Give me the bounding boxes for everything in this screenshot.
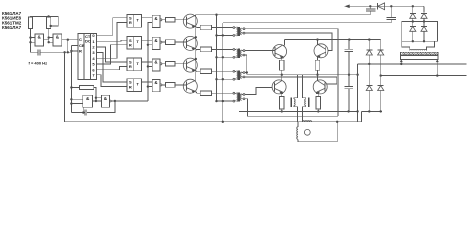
node clamp rail1 top — [368, 38, 370, 40]
node midpoint riser — [356, 74, 358, 76]
wire R2 bottom bus — [48, 29, 50, 43]
node bridge c2 frame top — [423, 20, 425, 22]
node leg A mid — [281, 74, 283, 76]
wire DD6.1 bottom stub — [82, 107, 84, 112]
wire bus B to C3 — [223, 22, 391, 24]
node clamp rail2 bottom — [380, 110, 382, 112]
node blanking row4 — [147, 85, 149, 87]
node bridge c1 frame bottom — [412, 40, 414, 42]
node rail x357 bottom join — [356, 110, 358, 112]
wire counter out 6 to DD4.1 R — [97, 67, 127, 70]
wire supply top — [345, 5, 425, 7]
wire R4 to VT2 base — [175, 41, 187, 43]
wire R11 bottom — [281, 70, 283, 74]
counter DD2 K561IE8 — [78, 33, 97, 80]
wire bottom long — [65, 121, 362, 123]
node VT6 collector — [316, 38, 318, 40]
svg-text:C: C — [79, 37, 82, 42]
wire FF1 out to gate — [141, 17, 152, 19]
wire VT5 collector — [282, 40, 284, 46]
svg-text:R: R — [129, 64, 132, 69]
resistor R3 — [166, 18, 175, 23]
node T3 sec top join — [246, 71, 248, 73]
wire FF3 out to gate — [141, 61, 152, 63]
wire VT5 emitter — [282, 57, 283, 61]
gate DD5.2 output bubble — [160, 41, 162, 43]
wire gate4 to R6 — [162, 84, 166, 86]
wire counter out 4 to DD3.1 R — [97, 22, 127, 58]
transistor VT6 — [314, 44, 328, 58]
wire supply bus A — [216, 15, 218, 102]
wire R15 right — [94, 88, 96, 102]
wire R1-R2 top rail — [31, 16, 59, 26]
capacitor C2 — [366, 6, 376, 14]
node DD6.1 stub — [82, 111, 84, 113]
wire counter out 2 to DD4.1 S — [97, 47, 127, 62]
resistor R4 — [166, 40, 175, 45]
resistor R12 — [315, 60, 320, 70]
gate DD5.1 NAND — [152, 15, 160, 27]
node leg B mid — [316, 74, 318, 76]
wire C1 left — [31, 51, 38, 53]
resistor R13 — [280, 96, 285, 109]
resistor R7 — [200, 25, 211, 30]
wire T1 sec bottom to VT6 base — [245, 33, 332, 50]
resistor R9 — [200, 69, 211, 74]
node R15 to DD6.1 out — [95, 100, 97, 102]
node T1 ret busB — [222, 34, 224, 36]
wire T3 primary return — [217, 78, 234, 80]
wire midpoint riser — [357, 64, 359, 75]
node C6 feedback — [114, 100, 116, 102]
wire rail x357 down — [357, 75, 359, 122]
node DD6.2 input a tap — [95, 97, 97, 99]
svg-text:DC: DC — [85, 38, 91, 43]
wire output lower — [381, 75, 467, 77]
wire R13 bottom — [281, 109, 283, 112]
capacitor C5 — [345, 75, 354, 112]
wire VT6 collector — [317, 40, 320, 45]
wire DD6.2 input a — [96, 97, 102, 99]
transistor VT4 — [183, 79, 197, 93]
wire VT4 emitter — [195, 91, 200, 93]
wire VT1 collector rail — [196, 14, 370, 16]
resistor R8 — [200, 47, 211, 52]
lamp housing outline — [297, 121, 337, 142]
gate DD5.3 output bubble — [160, 63, 162, 65]
wire R1 bottom to C1 — [30, 29, 32, 53]
resistor R5 — [166, 62, 175, 67]
transistor VT8 — [313, 80, 327, 94]
wire slow branch down — [64, 52, 66, 122]
svg-text:R: R — [129, 20, 132, 25]
wire DD1.2 input b — [49, 41, 53, 43]
wire R15 left — [71, 87, 79, 89]
wire R5 to VT3 base — [175, 63, 187, 65]
wire FF2 out to gate — [141, 39, 152, 41]
transistor VT1 — [183, 14, 197, 28]
capacitor C6 — [85, 110, 87, 116]
resistor R14 — [316, 96, 321, 109]
gate DD5.3 NAND — [152, 59, 160, 71]
wire VT1 emitter — [195, 26, 200, 28]
resistor R10 — [200, 91, 211, 96]
wire counter out 1 to DD3.2 S — [97, 40, 127, 41]
svg-text:CE: CE — [79, 43, 85, 48]
wire T5 feed right top — [303, 75, 306, 99]
wire T6 sec left lead — [400, 60, 403, 64]
gate DD5.4 output bubble — [160, 84, 162, 86]
wire VT7 collector — [281, 75, 283, 81]
wire T4 sec bottom — [245, 99, 338, 116]
node cap2 bottom — [347, 110, 349, 112]
diode VD6 — [410, 6, 416, 21]
diode VD8 — [410, 22, 416, 42]
wire counter R input — [71, 50, 78, 52]
wire bridge col2 feed — [423, 6, 425, 12]
wire blanking bus vertical — [148, 22, 152, 101]
wire CE/R common drop — [70, 46, 72, 113]
wire blanking to gate4 — [148, 86, 152, 88]
node T3 ret busA — [215, 78, 217, 80]
transistor VT5 — [273, 45, 287, 59]
node bus A top — [215, 14, 217, 16]
wire T3 sec top — [245, 72, 247, 74]
wire R9 to T3 primary — [212, 70, 233, 72]
gate DD6.1 NAND — [83, 95, 93, 107]
node C2 top — [369, 5, 371, 7]
transformer T3 — [233, 70, 245, 80]
wire R8 to T2 primary — [212, 48, 233, 50]
bridge frame — [402, 22, 438, 42]
node cap rail top — [348, 38, 350, 40]
node bridge col1 top — [412, 5, 414, 7]
node gate DD1.2 input b — [48, 41, 50, 43]
transformer T6 core — [401, 52, 439, 54]
wire output upper — [358, 63, 467, 65]
wire counter out 3 to DD4.2 S — [97, 53, 127, 82]
node T4 ret busB — [222, 100, 224, 102]
node gate DD1.1 input b — [29, 41, 31, 43]
node T6 sec left — [400, 63, 402, 65]
wire counter out 0 to DD3.1 S — [97, 18, 127, 36]
node lamp top right — [336, 121, 338, 123]
wire C6 right — [87, 101, 115, 113]
wire T4 sec top to VT7 base — [245, 88, 272, 95]
wire bottom-right drop — [361, 111, 363, 121]
wire DD6.1 input b — [71, 103, 82, 105]
resistor R1 — [28, 17, 32, 29]
wire VT6 emitter — [316, 56, 318, 60]
wire counter out 5 to DD3.2 R — [97, 45, 127, 64]
wire R2 top stub — [48, 15, 50, 18]
wire T2 sec bottom — [245, 55, 247, 75]
wire T5 feed right bottom — [303, 106, 306, 122]
diode VD2 — [366, 64, 372, 112]
wire T6 prim left lead — [402, 41, 410, 50]
node R13 bottom — [281, 110, 283, 112]
wire VT2 emitter — [195, 48, 200, 50]
node VT3 collector — [195, 58, 197, 60]
label f=400Hz — [29, 61, 48, 66]
wire R12 bottom — [317, 70, 319, 74]
svg-text:R: R — [79, 49, 82, 54]
flip-flop DD4.2 RS trigger — [127, 79, 141, 92]
wire counter CE input — [71, 45, 78, 47]
gate DD6.2 output bubble — [109, 100, 111, 102]
wire DD1.2 input a — [49, 37, 53, 39]
node slow branch — [63, 51, 65, 53]
wire T6 prim right lead — [427, 41, 435, 50]
diode VD1 — [366, 40, 372, 64]
node gate DD6.1 input a — [70, 98, 72, 100]
wire VT8 emitter — [317, 92, 319, 96]
lamp circle — [304, 129, 310, 135]
node T2 ret busB — [222, 56, 224, 58]
node bus B bottom — [222, 121, 224, 123]
wire T5 feed left top — [294, 75, 298, 99]
node R2 top — [47, 15, 49, 17]
node R14 bottom — [317, 110, 319, 112]
wire blanking to gate3 — [148, 66, 152, 68]
wire R10 to T4 primary — [212, 92, 233, 94]
gate DD5.1 output bubble — [160, 19, 162, 21]
diode VD4 — [378, 76, 384, 112]
wire bottom-right link — [362, 110, 382, 112]
transformer T2 — [233, 49, 245, 59]
node VT2 collector — [195, 36, 197, 38]
node T1 ret busA — [215, 34, 217, 36]
node gate DD1.1 input a — [29, 36, 31, 38]
wire gate2 to R4 — [162, 41, 166, 43]
resistor R11 — [280, 60, 285, 70]
node bridge c1 frame top — [412, 20, 414, 22]
node gate DD1.2 input a — [48, 36, 50, 38]
node bridge c2 frame bottom — [423, 40, 425, 42]
arrow supply — [345, 5, 350, 9]
node gate DD6.1 input b — [70, 102, 72, 104]
capacitor C1 — [38, 49, 40, 55]
resistor R15 — [80, 86, 94, 90]
wire DD1.2 out to counter C — [62, 39, 78, 41]
wire DD1.1 out — [44, 39, 49, 41]
wire C6 left — [71, 112, 85, 114]
node clamp rail1 mid — [368, 63, 370, 65]
svg-text:R: R — [129, 43, 132, 48]
flip-flop DD3.2 RS trigger — [127, 36, 141, 49]
wire T3 sec bottom to VT8 base — [245, 77, 337, 84]
diode VD5 — [378, 3, 385, 10]
wire T2 primary return — [217, 56, 234, 58]
gate DD5.2 NAND — [152, 37, 160, 49]
wire R14 bottom — [317, 109, 319, 112]
flip-flop DD4.1 RS trigger — [127, 58, 141, 71]
wire DD6.1 input a — [71, 98, 82, 100]
diode VD3 — [378, 40, 384, 76]
diode VD7 — [421, 13, 427, 21]
wire T2 sec top to VT5 base — [245, 50, 275, 52]
wire gate3 to R5 — [162, 63, 166, 65]
wire VT7 emitter — [281, 92, 284, 96]
transformer T4 — [233, 92, 245, 102]
node blanking row2 — [147, 44, 149, 46]
svg-text:f = 400 Hz: f = 400 Hz — [29, 61, 48, 66]
node T4 ret busA — [215, 100, 217, 102]
wire R6 to VT4 base — [175, 84, 187, 86]
wire bottom rail — [239, 110, 358, 112]
wire R7 to T1 primary — [212, 27, 233, 29]
wire DD6.2 out — [111, 100, 148, 102]
gate DD1.2 NAND — [53, 34, 62, 46]
wire counter out 7 to DD4.2 R — [97, 75, 127, 87]
wire C1 right — [40, 51, 72, 53]
transformer T5 current sense — [291, 98, 310, 107]
transistor VT3 — [183, 58, 197, 72]
wire collector bus — [195, 15, 197, 80]
flip-flop DD3.1 RS trigger — [127, 15, 141, 28]
wire DD1.1 input a — [31, 37, 35, 39]
wire supply bus B — [222, 23, 224, 122]
wire VT8 collector — [316, 75, 318, 81]
wire FF4 out to gate — [141, 81, 152, 83]
capacitor C4 — [345, 40, 354, 75]
wire VT3 emitter — [195, 70, 200, 72]
node C1 wire join — [67, 51, 69, 53]
wire T4 primary return — [217, 100, 234, 102]
transformer T6 primary winding — [410, 49, 427, 50]
node R input tap — [70, 50, 72, 52]
transistor VT7 — [272, 80, 286, 94]
svg-text:R: R — [129, 84, 132, 89]
wire gate1 to R3 — [162, 19, 166, 21]
wire T6 sec right lead — [436, 60, 439, 76]
gate DD5.4 NAND — [152, 80, 160, 92]
transistor VT2 — [183, 36, 197, 50]
transformer T6 secondary — [401, 56, 439, 60]
resistor R6 — [166, 83, 175, 88]
node R2 side — [50, 25, 52, 27]
wire osc out down — [67, 40, 69, 53]
wire DD6.1 out to DD6.2 — [93, 100, 102, 102]
node clamp rail1 bottom — [368, 110, 370, 112]
svg-text:К561ЛА7: К561ЛА7 — [2, 25, 22, 30]
gate DD1.1 NAND — [35, 34, 44, 46]
wire T1 primary return — [217, 34, 234, 36]
node clamp rail2 mid — [380, 74, 382, 76]
wire DD1.1 input b — [31, 41, 35, 43]
capacitor C3 — [387, 6, 397, 23]
resistor R2 — [47, 17, 51, 29]
node T6 sec right — [436, 74, 438, 76]
node midpoint cap — [348, 74, 350, 76]
wire R3 to VT1 base — [175, 19, 187, 21]
node T3 ret busB — [222, 78, 224, 80]
wire +V bus — [285, 39, 381, 41]
transformer T1 — [233, 27, 245, 37]
gate DD6.2 NAND — [101, 95, 109, 107]
wire T1 sec top long — [245, 29, 338, 117]
wire midpoint bus — [247, 74, 358, 76]
node C3 top — [390, 5, 392, 7]
node R15 left tap — [70, 86, 72, 88]
wire blanking to gate2 — [148, 44, 152, 46]
node T2 ret busA — [215, 56, 217, 58]
wire T5 feed left bottom — [294, 106, 298, 122]
diode VD9 — [421, 22, 427, 42]
node blanking row3 — [147, 65, 149, 67]
IC type labels — [2, 11, 22, 30]
node osc out — [67, 39, 69, 41]
